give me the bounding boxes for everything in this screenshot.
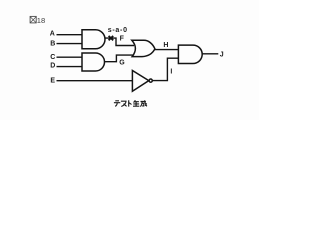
svg-text:J: J — [220, 51, 224, 58]
svg-text:B: B — [50, 41, 55, 48]
svg-text:s-a-0: s-a-0 — [108, 27, 128, 34]
svg-text:H: H — [163, 42, 168, 49]
svg-text:F: F — [120, 36, 125, 43]
svg-text:D: D — [50, 63, 55, 70]
svg-text:A: A — [50, 30, 55, 37]
svg-text:18: 18 — [37, 16, 45, 25]
svg-text:E: E — [50, 78, 55, 85]
svg-text:C: C — [50, 54, 55, 61]
svg-text:I: I — [170, 69, 172, 76]
svg-text:G: G — [119, 60, 125, 67]
